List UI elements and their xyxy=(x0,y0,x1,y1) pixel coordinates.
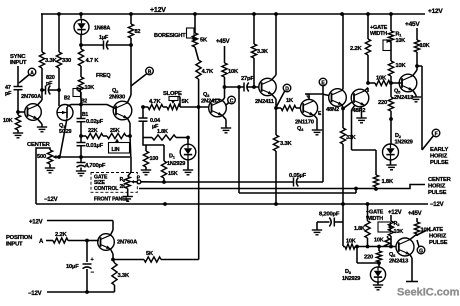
capacitor 27pF xyxy=(225,76,259,92)
svg-text:25K: 25K xyxy=(110,128,120,134)
svg-text:+45V: +45V xyxy=(408,211,422,217)
label +45V mid xyxy=(216,39,230,45)
wire 25K to R3 xyxy=(129,136,132,157)
svg-text:10µF: 10µF xyxy=(66,264,79,270)
svg-text:82: 82 xyxy=(135,29,141,35)
resistor 220 lower xyxy=(364,247,382,265)
svg-text:LATE: LATE xyxy=(429,227,443,233)
node Q5 collector xyxy=(415,64,419,68)
svg-text:−12V: −12V xyxy=(28,291,42,297)
svg-text:1N2929: 1N2929 xyxy=(395,140,413,146)
svg-text:2N760A: 2N760A xyxy=(117,240,138,246)
node diode bottom xyxy=(79,35,83,47)
resistor 3.3K lower mid xyxy=(273,108,292,204)
node 27pF junction xyxy=(223,85,227,89)
ground 2N760A emitter xyxy=(37,127,47,132)
capacitor 1uF xyxy=(81,35,131,50)
resistor 10K right45 xyxy=(414,28,430,66)
resistor 220 right xyxy=(378,83,394,119)
ground 4700pF xyxy=(76,171,86,176)
watermark xyxy=(397,287,460,299)
svg-text:48P2: 48P2 xyxy=(353,108,366,114)
svg-text:F: F xyxy=(435,132,438,138)
wire D3 drop xyxy=(355,245,379,263)
svg-text:1.8K: 1.8K xyxy=(157,129,168,135)
resistor 1.8K lower xyxy=(354,204,370,248)
wire 2.2K to ground col xyxy=(367,88,369,92)
svg-text:Q4: Q4 xyxy=(297,126,304,132)
wire early pulse xyxy=(417,66,433,150)
svg-text:Q3: Q3 xyxy=(203,92,210,98)
wire 48N2 collector xyxy=(341,14,344,90)
node B xyxy=(131,67,153,86)
box GATE SIZE CONTROL xyxy=(91,173,137,193)
node A lower xyxy=(39,239,44,245)
capacitor 10uF xyxy=(66,241,95,293)
wire sub row xyxy=(143,138,164,146)
svg-text:1.8K: 1.8K xyxy=(382,179,394,185)
svg-text:+45V: +45V xyxy=(216,39,230,45)
wire bus1 right xyxy=(297,95,323,182)
svg-text:0.02µF: 0.02µF xyxy=(86,119,104,125)
transistor Q1 5C29 UJT xyxy=(57,96,88,136)
resistor 82 xyxy=(128,14,140,45)
svg-text:PULSE: PULSE xyxy=(428,190,447,196)
svg-text:WIDTH: WIDTH xyxy=(370,31,387,37)
capacitor 0.04uF xyxy=(139,107,162,138)
sync input label xyxy=(10,54,27,66)
wire sync stub xyxy=(17,66,19,84)
svg-text:BORESIGHT: BORESIGHT xyxy=(154,33,186,39)
label +45V right xyxy=(405,21,420,28)
wire Q4 emitter xyxy=(314,115,317,130)
resistor 5K position xyxy=(113,251,199,262)
resistor 10K q6base2 xyxy=(374,236,390,247)
svg-text:1.8K: 1.8K xyxy=(354,226,365,232)
svg-text:10K: 10K xyxy=(394,229,404,235)
node P wiper xyxy=(137,175,141,183)
svg-text:10K: 10K xyxy=(3,118,13,124)
resistor 15K xyxy=(161,145,177,184)
capacitor 8200pF xyxy=(317,212,343,231)
ground 8200pF xyxy=(312,230,322,235)
svg-text:220: 220 xyxy=(364,255,373,261)
node Q5 base junction xyxy=(389,81,393,85)
svg-text:10K: 10K xyxy=(228,69,239,75)
potentiometer 5K SLOPE xyxy=(163,91,190,110)
capacitor 47pF xyxy=(5,84,23,112)
svg-text:+12V: +12V xyxy=(150,7,166,14)
wire emitter 2N760A xyxy=(37,119,42,127)
label POSITION INPUT xyxy=(6,235,32,248)
rail dots xyxy=(163,202,369,206)
diode 1N68A xyxy=(74,14,110,35)
wire 48P2 to 1.8K xyxy=(352,105,377,175)
svg-text:2N930: 2N930 xyxy=(109,95,125,101)
capacitor 0.02uF xyxy=(77,105,104,126)
node C xyxy=(226,96,236,105)
label LATE HORIZ PULSE xyxy=(429,227,448,246)
label CENTER HORIZ PULSE xyxy=(428,177,452,196)
node G xyxy=(417,240,425,255)
node 820pF right xyxy=(57,88,61,92)
wire 48P2 base xyxy=(343,102,353,109)
svg-text:G: G xyxy=(419,249,423,255)
resistor 4.7K slope xyxy=(143,99,163,110)
resistor 100 xyxy=(143,145,158,170)
node base junction xyxy=(16,110,20,114)
transistor Q3 2N2413 xyxy=(201,92,226,117)
wire position collector xyxy=(29,220,113,236)
node E xyxy=(319,78,327,94)
wire position emitter xyxy=(110,249,115,262)
transistor 48P2 xyxy=(351,89,369,114)
svg-text:100: 100 xyxy=(150,156,159,162)
svg-text:R1: R1 xyxy=(396,32,403,38)
wire base mid xyxy=(355,245,381,249)
ground Q4 xyxy=(312,130,322,135)
node 10uF top xyxy=(85,239,99,243)
wire UJT emitter xyxy=(58,90,60,106)
label FRONT PANEL xyxy=(94,197,129,203)
svg-text:4.7 K: 4.7 K xyxy=(86,58,100,64)
label +45V lower xyxy=(408,211,422,217)
svg-text:15K: 15K xyxy=(168,171,178,177)
svg-text:FREQ: FREQ xyxy=(96,73,111,79)
wire Q5 base xyxy=(391,82,401,84)
resistor 10K lower45 xyxy=(414,218,431,236)
label E Q4 xyxy=(318,111,322,117)
svg-text:0.01µF: 0.01µF xyxy=(86,143,104,149)
wire UJT B2 xyxy=(67,105,80,107)
svg-text:B2: B2 xyxy=(64,96,70,102)
wire Q6 collector xyxy=(410,234,417,240)
svg-text:D: D xyxy=(285,87,289,93)
resistor 10K horiz xyxy=(368,76,390,86)
svg-text:10K: 10K xyxy=(420,43,431,49)
power +12V right label dots xyxy=(57,12,393,16)
resistor 22K xyxy=(81,128,103,139)
svg-text:8,200pF: 8,200pF xyxy=(319,212,340,218)
potentiometer 500 CENTER xyxy=(37,150,57,164)
potentiometer 10K FREQ xyxy=(73,73,111,105)
diode D2 1N2929 xyxy=(383,119,413,165)
svg-text:4,700pF: 4,700pF xyxy=(85,163,106,169)
wire center pot top xyxy=(36,148,50,204)
node 2.2K bottom xyxy=(366,81,370,85)
wire center row xyxy=(59,156,130,158)
wire bus3 xyxy=(239,187,358,193)
node F xyxy=(432,129,440,137)
svg-text:B: B xyxy=(148,70,152,76)
potentiometer R3 2K xyxy=(120,157,138,190)
capacitor 4700pF xyxy=(77,157,106,171)
svg-text:1K: 1K xyxy=(286,98,294,104)
svg-text:22K: 22K xyxy=(88,128,98,134)
svg-text:5K: 5K xyxy=(146,251,154,257)
transistor Q2 2N930 xyxy=(109,88,132,120)
resistor 1.8K right xyxy=(373,175,394,191)
svg-text:D1: D1 xyxy=(169,154,176,160)
svg-text:4.7K: 4.7K xyxy=(149,99,161,105)
wire Q3 collector xyxy=(222,87,224,101)
wire Q2 base xyxy=(81,105,115,109)
svg-text:3.3K: 3.3K xyxy=(257,49,268,55)
svg-text:2N1170: 2N1170 xyxy=(295,120,314,126)
label +GATE WIDTH xyxy=(370,25,388,37)
svg-text:HORIZ: HORIZ xyxy=(428,184,446,190)
capacitor 820pF xyxy=(42,75,59,95)
transistor 2N760A position xyxy=(98,234,138,251)
svg-text:+: + xyxy=(91,257,94,263)
resistor 10K q6base1 xyxy=(345,239,356,250)
wire Q5 emitter xyxy=(413,90,416,97)
svg-text:PULSE: PULSE xyxy=(430,160,449,166)
wire 48P2 collector xyxy=(365,88,368,91)
ground sync 10K xyxy=(13,133,23,138)
transistor Q 2N760A sync xyxy=(21,94,42,120)
ground 48P2 xyxy=(356,118,366,123)
resistor 4.7K freq xyxy=(78,45,99,77)
resistor 10K mid45 xyxy=(222,46,239,87)
node D xyxy=(277,84,291,106)
wire 48N2 emitter xyxy=(341,105,345,111)
wire Q6 base line xyxy=(343,246,345,248)
wire bus2 center pulse xyxy=(139,185,425,189)
node 820pF left xyxy=(40,88,44,92)
svg-text:−12V: −12V xyxy=(430,202,444,208)
wire 48N2 base xyxy=(322,94,329,96)
svg-text:FRONT PANEL: FRONT PANEL xyxy=(94,197,129,203)
wire slope row right xyxy=(180,105,209,109)
potentiometer 5K boresight xyxy=(187,14,209,47)
wire Q3 emitter xyxy=(222,115,226,128)
resistor 1K xyxy=(276,98,301,111)
transistor 2N2411 xyxy=(255,78,276,105)
svg-text:10K: 10K xyxy=(376,76,387,82)
svg-text:D2: D2 xyxy=(395,133,402,139)
ground R3 xyxy=(123,189,133,202)
svg-text:2N760A: 2N760A xyxy=(21,94,42,100)
svg-text:+12V: +12V xyxy=(388,210,402,216)
node 2N2411 base xyxy=(252,85,256,89)
svg-text:R2: R2 xyxy=(394,221,401,227)
label CENTER xyxy=(27,142,51,148)
wire base xyxy=(18,111,25,113)
resistor 3.3K position xyxy=(112,260,130,293)
wire Q6 emitter xyxy=(406,254,418,281)
svg-text:1µF: 1µF xyxy=(99,35,109,41)
svg-text:1N68A: 1N68A xyxy=(94,26,110,32)
transistor Q4 2N1170 xyxy=(295,99,318,132)
svg-text:48N2: 48N2 xyxy=(326,107,339,113)
ground Q5 xyxy=(411,97,421,102)
diode D3 1N2929 xyxy=(342,263,386,285)
ground Q3 xyxy=(221,128,231,133)
svg-text:+45V: +45V xyxy=(405,21,420,28)
resistor 10K below R1 xyxy=(388,42,406,83)
resistor 3.3K left xyxy=(39,14,57,90)
wire -12V rail xyxy=(36,197,444,208)
resistor 33K xyxy=(340,109,355,247)
wire bus1 gate xyxy=(141,181,294,183)
resistor 10K sync xyxy=(3,112,21,133)
wire Q4 collector bar xyxy=(305,94,322,99)
resistor 1.8K mid xyxy=(143,129,190,140)
resistor 2.2K xyxy=(350,14,371,83)
svg-text:27pF: 27pF xyxy=(241,76,254,82)
svg-text:2K: 2K xyxy=(120,184,127,190)
wire late pulse xyxy=(417,231,426,236)
capacitor 0.05uF xyxy=(289,173,307,187)
potentiometer 25K LIN xyxy=(103,128,130,153)
diode D1 1N2929 xyxy=(167,138,196,171)
svg-text:pF: pF xyxy=(5,91,12,97)
potentiometer R1 10K xyxy=(383,14,405,51)
wire 48P2 emitter xyxy=(360,107,363,119)
svg-text:D3: D3 xyxy=(345,269,352,275)
node center row mid xyxy=(79,155,83,159)
svg-text:PULSE: PULSE xyxy=(429,240,448,246)
transistor Q6 2N2413 xyxy=(389,238,414,265)
svg-text:Q5: Q5 xyxy=(394,89,401,95)
wire Q2 collector xyxy=(127,45,131,104)
svg-text:500: 500 xyxy=(37,154,46,160)
svg-text:CONTROL: CONTROL xyxy=(94,186,119,192)
capacitor 0.01uF xyxy=(77,136,104,157)
resistor 4.7K boresight xyxy=(195,47,214,107)
wire base to Q6 xyxy=(379,245,396,249)
label -GATE WIDTH xyxy=(366,210,384,223)
svg-text:10K: 10K xyxy=(346,239,356,245)
svg-text:10K: 10K xyxy=(85,85,95,91)
wire +12V top rail xyxy=(41,7,443,15)
ground D3 xyxy=(373,285,383,290)
svg-text:3.3K: 3.3K xyxy=(280,141,292,147)
svg-text:SeekIC.com: SeekIC.com xyxy=(397,287,460,299)
svg-text:Q6: Q6 xyxy=(389,252,396,258)
svg-text:2N2413: 2N2413 xyxy=(394,95,414,101)
node 22K junction xyxy=(79,122,83,138)
wire Q5 collector xyxy=(413,66,417,76)
svg-text:EARLY: EARLY xyxy=(430,147,448,153)
ground D1 xyxy=(183,170,193,175)
node D2 junction xyxy=(389,117,393,121)
label EARLY HORIZ PULSE xyxy=(430,147,449,166)
transistor 48N2 xyxy=(326,89,346,113)
node Q2 emitter join xyxy=(128,134,132,138)
wire Q2 emitter xyxy=(127,118,130,137)
svg-text:HORIZ: HORIZ xyxy=(429,234,447,240)
svg-text:−12V: −12V xyxy=(44,197,58,203)
svg-text:CENTER: CENTER xyxy=(428,177,452,183)
node slope left xyxy=(141,105,145,109)
svg-text:INPUT: INPUT xyxy=(6,242,23,248)
svg-text:0.05µF: 0.05µF xyxy=(289,173,307,179)
transistor Q5 2N2413 xyxy=(394,74,417,101)
ground 100 xyxy=(141,170,151,175)
resistor 2.2K position xyxy=(46,232,87,243)
svg-text:2N2413: 2N2413 xyxy=(201,99,221,105)
wire -12V rail lower xyxy=(28,290,115,297)
svg-text:−GATE: −GATE xyxy=(366,210,384,216)
potentiometer R2 10K xyxy=(378,215,403,247)
svg-text:+12V: +12V xyxy=(428,8,443,15)
svg-text:CENTER: CENTER xyxy=(27,142,51,148)
svg-text:10K: 10K xyxy=(396,38,406,44)
ground 500 pot xyxy=(45,164,55,173)
svg-text:INPUT: INPUT xyxy=(10,60,27,66)
wire collector 2N760A xyxy=(37,90,42,105)
label BORESIGHT xyxy=(154,33,186,39)
svg-text:10K: 10K xyxy=(395,63,406,69)
svg-text:2.2K: 2.2K xyxy=(350,46,362,52)
svg-text:5K: 5K xyxy=(182,99,190,105)
svg-text:B1: B1 xyxy=(82,112,88,118)
label C Q4 xyxy=(307,94,311,100)
svg-text:2N2413: 2N2413 xyxy=(389,259,409,265)
wire center wiper xyxy=(56,155,61,159)
svg-text:+12V: +12V xyxy=(29,220,43,226)
label +12V lower xyxy=(388,210,402,216)
svg-text:5K: 5K xyxy=(200,38,208,44)
svg-text:C: C xyxy=(230,99,234,105)
wire C column down xyxy=(237,85,241,193)
svg-text:A: A xyxy=(30,71,34,77)
svg-text:POSITION: POSITION xyxy=(6,235,32,241)
svg-text:Q2: Q2 xyxy=(112,88,119,94)
wire 2N2411 emitter xyxy=(272,94,278,110)
svg-text:4.7K: 4.7K xyxy=(202,69,214,75)
svg-text:330: 330 xyxy=(62,58,71,64)
node 1uF right xyxy=(129,43,133,47)
ground D2 xyxy=(386,165,396,170)
svg-text:1N2929: 1N2929 xyxy=(167,161,185,167)
svg-text:2.2K: 2.2K xyxy=(55,232,67,238)
resistor 3.3K mid xyxy=(251,14,268,87)
svg-text:HORIZ: HORIZ xyxy=(430,154,448,160)
wire UJT B1 xyxy=(60,119,67,157)
svg-text:220: 220 xyxy=(378,100,387,106)
svg-text:3.3K: 3.3K xyxy=(118,273,130,279)
node B2 junction xyxy=(79,103,83,107)
node A xyxy=(19,68,36,83)
svg-text:1N2929: 1N2929 xyxy=(342,276,360,282)
wire 2N2411 collector xyxy=(272,14,276,80)
wire 5K up xyxy=(198,108,200,260)
svg-text:2N2411: 2N2411 xyxy=(255,99,275,105)
resistor 330 xyxy=(56,14,71,90)
svg-text:10K: 10K xyxy=(374,238,384,244)
svg-text:LIN: LIN xyxy=(112,147,120,153)
